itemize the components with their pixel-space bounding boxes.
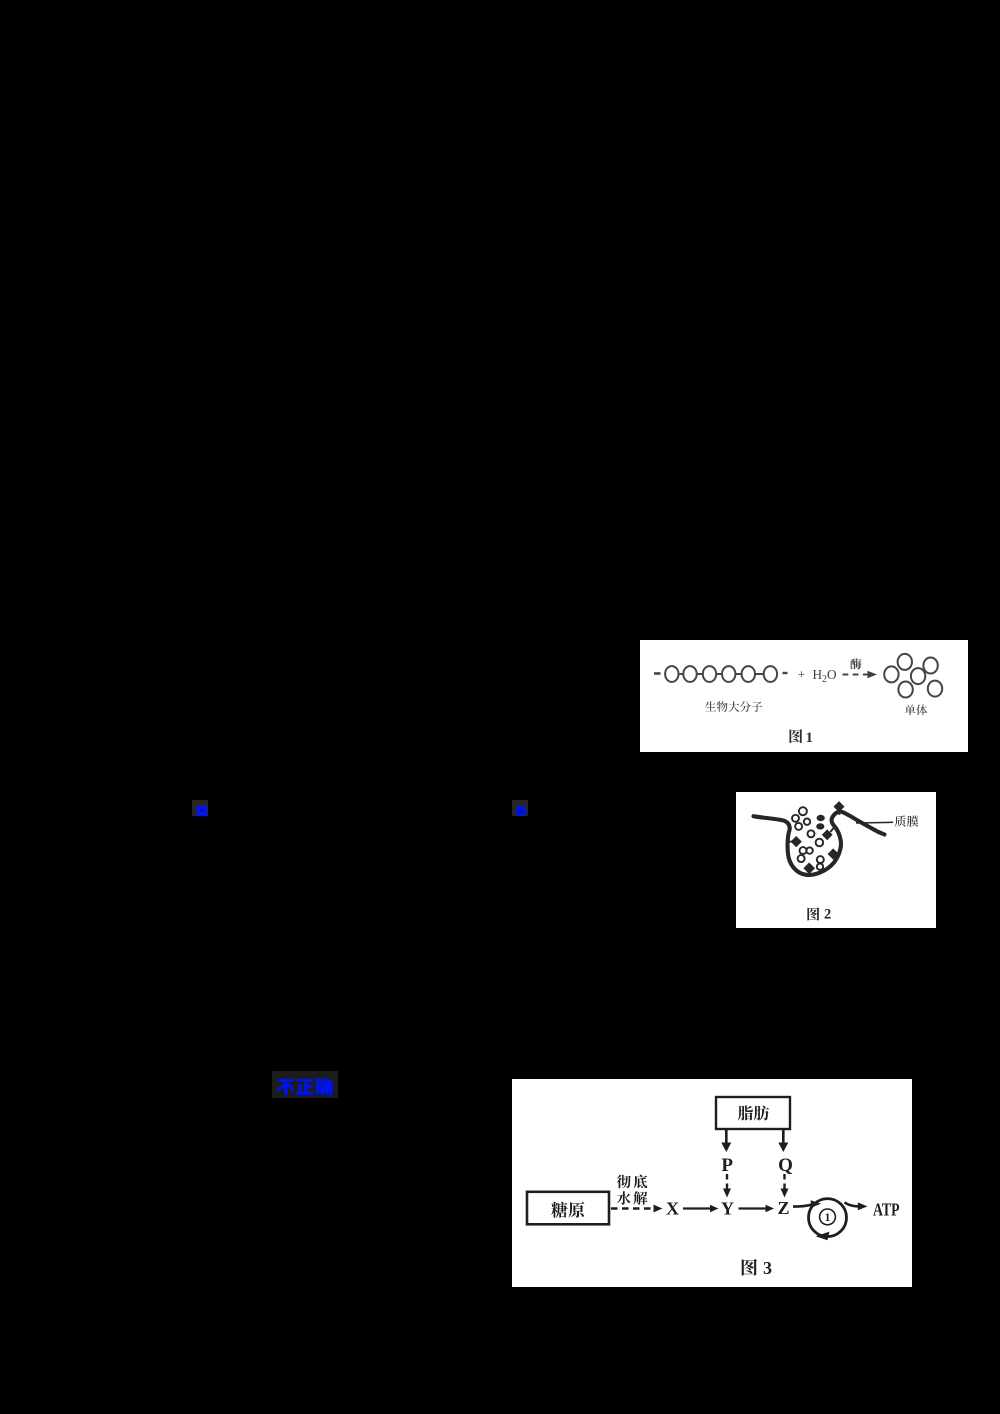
blue marker 2 on dark highlight square — [512, 800, 528, 816]
svg-text:ATP: ATP — [873, 1199, 900, 1219]
arrowhead X→Y — [710, 1205, 719, 1213]
dashed arrow P to Y — [726, 1174, 728, 1189]
receptor diamond on top membrane with stem — [834, 802, 844, 812]
arrowhead fat→Q — [778, 1143, 788, 1153]
svg-text:Q: Q — [778, 1155, 793, 1176]
box 糖原 (glycogen) — [527, 1192, 609, 1225]
blue answer text 不正确 — [275, 1073, 337, 1099]
caption 图3 — [742, 1259, 757, 1276]
small molecule circles inside pocket — [792, 807, 824, 870]
polymer chain: six monomer circles — [665, 666, 678, 682]
arrowhead Q→Z — [781, 1189, 789, 1198]
line from Z toward cycle circle — [793, 1204, 813, 1206]
cycle circle ① — [809, 1199, 847, 1237]
arrowhead circle→ATP — [858, 1202, 868, 1210]
svg-text:P: P — [721, 1155, 733, 1176]
arrowhead Y→Z — [766, 1205, 775, 1213]
svg-text:H2O: H2O — [813, 667, 837, 685]
label 生物大分子 (biomacromolecule) — [705, 701, 762, 712]
label 彻底 (line 1) — [617, 1175, 648, 1189]
label 质膜 (plasma membrane) — [895, 816, 919, 827]
figure 2 panel: endocytosis pocket — [736, 792, 936, 928]
label 单体 (monomer) — [905, 705, 928, 716]
cycle bottom arrowhead — [816, 1232, 830, 1241]
figure 1 panel: hydrolysis of biomacromolecule — [640, 640, 968, 752]
dashed arrow Q to Z — [783, 1174, 785, 1189]
solid arrow X to Y — [683, 1207, 711, 1209]
arrowhead P→Y — [723, 1189, 731, 1198]
enzyme label 酶 above arrow — [850, 658, 861, 669]
text 脂肪 in fat box — [738, 1106, 769, 1121]
monomer cluster circles — [884, 666, 898, 682]
leading dash of polymer chain — [654, 672, 661, 675]
leader line to 质膜 label — [856, 821, 893, 824]
text 糖原 in glycogen box — [551, 1202, 584, 1218]
svg-text:Z: Z — [777, 1198, 789, 1218]
svg-text:+: + — [798, 667, 806, 682]
caption 图1 — [790, 729, 803, 743]
receptor diamond on right wall with stem — [828, 849, 838, 859]
exit line from circle to ATP arrowhead — [845, 1203, 859, 1207]
box 脂肪 (fat) — [716, 1097, 790, 1129]
inner circled-one glyph ring — [820, 1209, 836, 1225]
svg-text:2: 2 — [824, 907, 831, 923]
svg-text:X: X — [666, 1198, 679, 1218]
solid arrow from fat box to Q — [782, 1130, 785, 1144]
svg-text:Y: Y — [721, 1199, 734, 1219]
solid arrow Y to Z — [739, 1207, 767, 1209]
chain connector bonds — [678, 673, 683, 675]
receptor diamond on left wall with stem — [791, 837, 801, 847]
caption 图2 — [807, 907, 819, 920]
plasma membrane invagination curve — [754, 812, 885, 875]
label 水解 (line 2) — [617, 1191, 648, 1205]
svg-text:1: 1 — [806, 730, 814, 746]
solid arrow from fat box to P — [725, 1130, 728, 1144]
dashed arrow 糖原 to X (complete hydrolysis) — [611, 1207, 653, 1209]
dashed reaction arrow — [843, 674, 870, 676]
dark highlight behind answer text — [272, 1071, 338, 1098]
trailing dash of polymer chain — [783, 672, 788, 674]
receptor diamond near right neck with stem — [823, 830, 832, 839]
two small solid particles inside pocket — [817, 815, 824, 820]
arrowhead into circle top-left — [811, 1200, 822, 1207]
arrowhead dashed→X — [654, 1205, 663, 1213]
svg-text:1: 1 — [825, 1212, 831, 1224]
svg-text:3: 3 — [763, 1258, 772, 1278]
arrowhead fat→P — [721, 1143, 731, 1153]
blue marker 1 on dark highlight square — [192, 800, 208, 816]
figure 3 panel: glycogen/fat to ATP pathway — [512, 1079, 912, 1287]
receptor diamond on bottom wall with stem — [804, 863, 814, 873]
